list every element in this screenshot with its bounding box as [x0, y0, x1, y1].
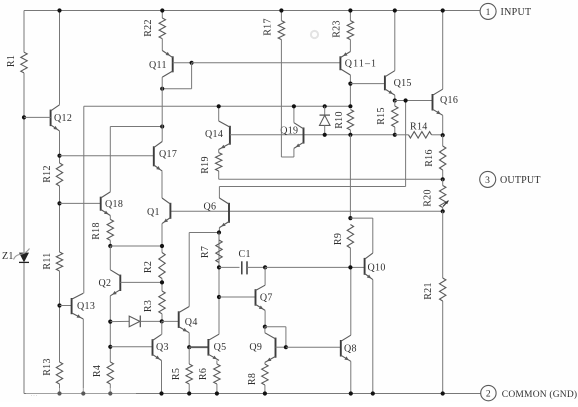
- svg-text:…: …: [30, 389, 38, 398]
- resistor R20: [423, 179, 449, 211]
- transistor Q19: [280, 123, 303, 149]
- wire Q14 collector up: [217, 104, 221, 121]
- wire Q11-1 emitter node: [348, 75, 385, 106]
- wire Q15 emitter node: [393, 95, 433, 103]
- svg-text:Q14: Q14: [205, 129, 223, 140]
- node R9 top junction: [348, 216, 373, 220]
- svg-text:R10: R10: [334, 111, 345, 129]
- wire Q12 collector up: [57, 8, 61, 104]
- wire R11 bottom: [59, 271, 61, 362]
- resistor R16: [424, 135, 446, 179]
- wire R13 to ground: [57, 384, 61, 396]
- wire Q14 base line: [230, 134, 395, 136]
- resistor R17: [263, 8, 285, 39]
- svg-text:2: 2: [486, 390, 491, 400]
- svg-text:R12: R12: [42, 165, 53, 183]
- svg-text:Q3: Q3: [156, 342, 169, 353]
- wire R19 to output node: [219, 171, 443, 179]
- wire Q18 collector up: [110, 127, 162, 192]
- svg-text:Q9: Q9: [249, 342, 262, 353]
- svg-text:Q13: Q13: [77, 301, 95, 312]
- resistor R22: [143, 8, 166, 38]
- node R10 bottom junction: [348, 133, 352, 218]
- wire Q12 emitter down: [59, 131, 61, 163]
- transistor Q12: [51, 105, 73, 131]
- svg-text:R2: R2: [143, 261, 154, 273]
- transistor Q3: [153, 334, 169, 360]
- svg-text:R9: R9: [333, 233, 344, 245]
- resistor R13: [42, 358, 63, 384]
- decor: [26, 31, 318, 398]
- svg-text:R4: R4: [92, 365, 103, 377]
- wire Q8 emitter to ground: [349, 361, 353, 395]
- svg-text:Q11: Q11: [149, 60, 167, 71]
- diode D1: [129, 316, 162, 328]
- wire R5 to ground: [187, 384, 191, 396]
- wire Q3 emitter to ground: [159, 361, 163, 396]
- svg-text:R5: R5: [171, 368, 182, 380]
- resistor R9: [333, 225, 354, 268]
- terminal 1 INPUT: [480, 3, 531, 19]
- wire Q8 collector up: [350, 267, 352, 335]
- svg-text:R7: R7: [200, 246, 211, 258]
- svg-text:Z1: Z1: [2, 251, 14, 262]
- svg-text:R13: R13: [42, 358, 53, 376]
- resistor R7: [200, 233, 222, 268]
- svg-text:R19: R19: [200, 156, 211, 174]
- wire Q2 base: [120, 281, 162, 283]
- wire Q2 emitter down: [109, 296, 111, 362]
- transistor Q18: [101, 192, 123, 216]
- svg-text:R20: R20: [423, 189, 434, 207]
- svg-text:Q10: Q10: [368, 263, 386, 274]
- node Q9 base junction: [284, 345, 341, 349]
- resistor R10: [334, 110, 354, 135]
- svg-text:Q2: Q2: [99, 278, 112, 289]
- node Q7 base junction: [217, 295, 256, 299]
- node input-R12 junction: [22, 115, 26, 119]
- transistor Q9: [249, 327, 286, 363]
- svg-text:Q1: Q1: [147, 207, 160, 218]
- resistor R18: [91, 216, 114, 241]
- node R7-C1 junction: [217, 265, 240, 269]
- node R10 top junction: [348, 104, 352, 108]
- wire R4 to ground: [108, 384, 112, 396]
- capacitor C1: [239, 249, 266, 274]
- wire Q1-Q6 base line: [170, 210, 442, 212]
- transistor Q10: [365, 253, 386, 280]
- resistor R11: [42, 252, 63, 271]
- wire top input rail: [24, 10, 480, 12]
- transistor Q5: [208, 334, 226, 360]
- transistor Q14: [205, 121, 230, 150]
- node diode anode junction: [108, 320, 129, 324]
- transistor Q8: [341, 335, 357, 361]
- zener Z1: [2, 249, 30, 263]
- node R11-Q13 junction: [57, 303, 71, 307]
- wire Q6 collector to Q16 base: [219, 101, 405, 199]
- svg-text:R8: R8: [247, 373, 258, 385]
- wire Q16 collector up: [441, 8, 445, 89]
- svg-text:R16: R16: [424, 149, 435, 167]
- resistor R19: [200, 150, 222, 174]
- node Q12e-R12 junction: [57, 154, 153, 158]
- wire bottom ground rail: [24, 393, 481, 395]
- resistor R12: [42, 163, 63, 186]
- svg-text:R18: R18: [91, 222, 102, 240]
- terminal 3 OUTPUT: [480, 171, 541, 187]
- wire mid rail (Q13/Q14/Q19 collectors): [84, 106, 351, 293]
- wire Q19 emitter loop: [281, 40, 294, 157]
- svg-text:R6: R6: [198, 368, 209, 380]
- resistor R15: [376, 101, 398, 135]
- transistor Q11-1: [340, 40, 377, 75]
- svg-text:C1: C1: [239, 249, 251, 260]
- wire Q11 base tie: [162, 61, 340, 89]
- resistor R8: [247, 362, 268, 385]
- node R9 bottom junction: [348, 265, 352, 269]
- svg-text:Q11–1: Q11–1: [345, 59, 377, 70]
- node R12-Q18 junction: [57, 201, 100, 205]
- wire Q5 collector up: [218, 240, 220, 334]
- wire Q10 collector up: [372, 218, 374, 253]
- svg-text:R3: R3: [143, 300, 154, 312]
- terminal 2 COMMON (GND): [481, 385, 578, 400]
- transistor Q11: [149, 39, 173, 77]
- wire R8 to ground: [263, 385, 267, 396]
- wire C1 to R9 line: [263, 265, 365, 269]
- node Q3 base junction: [108, 345, 152, 349]
- svg-text:Q17: Q17: [159, 149, 177, 160]
- node Q7e-Q9c junction: [263, 325, 286, 348]
- wire R6 to ground: [215, 384, 219, 396]
- transistor Q2: [99, 270, 121, 296]
- svg-text:R1: R1: [6, 55, 17, 67]
- transistor Q7: [256, 267, 273, 310]
- svg-text:R22: R22: [143, 19, 154, 37]
- svg-text:R14: R14: [410, 122, 428, 133]
- diode D2: [320, 104, 331, 137]
- resistor R6: [198, 360, 220, 384]
- node R18-R2 junction: [108, 240, 162, 248]
- svg-text:Q16: Q16: [440, 95, 458, 106]
- resistor R1: [6, 52, 27, 73]
- wire Q4 collector up: [189, 233, 219, 307]
- svg-text:1: 1: [486, 8, 491, 18]
- wire Q17 emitter down: [161, 171, 163, 198]
- svg-text:R17: R17: [263, 18, 274, 36]
- node R15 bottom junction: [393, 133, 397, 137]
- wire R12 bottom: [59, 186, 61, 252]
- wire Q16 emitter down: [442, 115, 444, 135]
- node R3-D1-Q4 junction: [160, 314, 179, 335]
- svg-text:3: 3: [485, 176, 490, 186]
- svg-text:Q5: Q5: [214, 342, 227, 353]
- svg-text:INPUT: INPUT: [501, 7, 532, 18]
- node R21 to ground: [441, 391, 445, 395]
- wire Q6 emitter down: [218, 228, 220, 233]
- wire Q4 emitter down: [188, 333, 190, 348]
- svg-text:COMMON (GND): COMMON (GND): [502, 389, 578, 400]
- svg-text:Q15: Q15: [394, 78, 412, 89]
- svg-text:Q18: Q18: [105, 199, 123, 210]
- svg-text:R21: R21: [423, 282, 434, 300]
- wire Q1 emitter down: [161, 224, 163, 253]
- node R14-R16 junction: [441, 133, 445, 137]
- svg-text:R15: R15: [376, 107, 387, 125]
- transistor Q17: [154, 142, 177, 172]
- wire Q11 collector down: [161, 77, 163, 141]
- wire Q19 collector up: [292, 104, 296, 122]
- transistor Q15: [385, 71, 412, 95]
- node Q11 collector junction: [160, 87, 164, 91]
- transistor Q16: [433, 89, 459, 115]
- resistor R5: [171, 347, 192, 384]
- resistor R4: [92, 362, 114, 384]
- node R20-R21 junction: [441, 209, 445, 278]
- wire Q7 emitter down: [264, 310, 266, 326]
- wire Q13 emitter to ground: [81, 319, 85, 396]
- svg-text:Q7: Q7: [260, 293, 273, 304]
- transistor Q6: [204, 198, 230, 228]
- svg-text:Q12: Q12: [54, 113, 72, 124]
- node output junction: [441, 177, 445, 181]
- resistor R23: [332, 8, 354, 39]
- wire Q15 collector up: [393, 8, 397, 70]
- transistor Q1: [147, 198, 170, 224]
- resistor R2: [143, 253, 165, 279]
- transistor Q13: [72, 293, 96, 319]
- node R18-R2 top junction: [160, 244, 164, 248]
- node R2-R3 junction: [160, 279, 164, 292]
- resistor R21: [423, 278, 446, 394]
- wire Q10 emitter to ground: [371, 280, 375, 396]
- svg-text:Q4: Q4: [185, 317, 198, 328]
- wire Q12 base: [24, 116, 51, 118]
- node Q6e-R7 junction: [217, 230, 221, 234]
- svg-text:R11: R11: [42, 252, 53, 269]
- svg-text:R23: R23: [332, 20, 343, 38]
- svg-text:Q19: Q19: [280, 126, 298, 137]
- wire Q2 collector up: [109, 246, 111, 270]
- node Q11c-Q17c-Q18c junction: [160, 124, 164, 128]
- wire left edge (R1/Z1 branch): [23, 11, 25, 394]
- resistor R3: [143, 291, 165, 314]
- transistor Q4: [179, 307, 198, 333]
- svg-text:Q6: Q6: [204, 202, 217, 213]
- resistor R14: [395, 122, 443, 139]
- svg-text:OUTPUT: OUTPUT: [500, 175, 541, 186]
- node Q4e-Q5b junction: [187, 345, 208, 349]
- svg-text:Q8: Q8: [344, 344, 357, 355]
